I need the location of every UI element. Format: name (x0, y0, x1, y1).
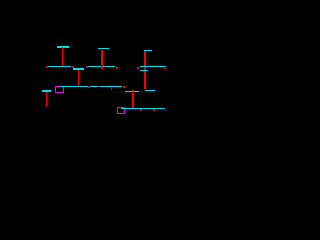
wire net7 vertical stem (132, 90, 134, 108)
pin mark M (165, 109, 166, 112)
junction dot J (123, 86, 125, 88)
junction dot H (98, 86, 99, 87)
power symbol P1 bar (57, 46, 68, 48)
component box U1 (55, 86, 64, 93)
wire net9 long horizontal (121, 108, 165, 109)
power symbol P2 stem wire (101, 50, 103, 69)
power symbol P4 bar (42, 90, 51, 92)
wire net5 short horizontal (140, 70, 148, 71)
wire net3 horizontal (88, 66, 115, 67)
junction dot E (137, 67, 139, 69)
junction dot D (116, 67, 118, 69)
wire net2 horizontal (73, 68, 84, 69)
wire net1 horizontal (48, 66, 71, 67)
wire net4 horizontal (140, 66, 166, 67)
junction dot C (86, 66, 88, 68)
power symbol P3 stem wire (144, 51, 146, 89)
wire net2 vertical stem (78, 70, 79, 87)
power symbol P3 bar (144, 50, 153, 51)
pin mark F (164, 68, 166, 69)
power symbol P2 bar (98, 48, 109, 49)
wire net7 horizontal (125, 91, 139, 92)
power symbol P1 stem wire (62, 47, 63, 66)
component box U2 (117, 107, 125, 114)
wire net6 long horizontal (59, 86, 122, 88)
junction dot A (46, 66, 48, 68)
junction dot L (153, 109, 155, 111)
wire net8 short horizontal (145, 90, 155, 91)
junction dot B (72, 66, 74, 68)
junction dot K (140, 109, 142, 111)
power symbol P4 stem wire (46, 92, 47, 108)
junction dot G (88, 86, 90, 88)
pin mark I (111, 88, 112, 90)
